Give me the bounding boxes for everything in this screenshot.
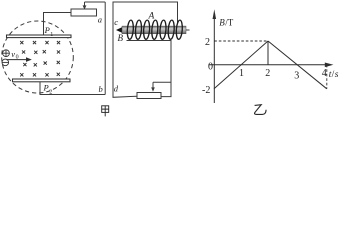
svg-text:-2: -2	[202, 85, 210, 96]
svg-text:P: P	[44, 25, 50, 35]
rheostat R2 slider arrow	[153, 82, 171, 88]
positive particle (circled plus)	[2, 50, 10, 66]
svg-text:P: P	[43, 83, 49, 93]
dashed drop at t=4	[326, 65, 328, 89]
svg-text:b: b	[99, 84, 103, 94]
x row 4	[20, 73, 23, 76]
svg-text:B: B	[118, 33, 124, 43]
solenoid axis line	[119, 29, 190, 31]
svg-text:a: a	[98, 15, 102, 25]
rheostat R1 box	[71, 9, 97, 16]
svg-text:d: d	[114, 84, 119, 94]
svg-text:3: 3	[294, 71, 299, 82]
drop line at t=2	[267, 41, 269, 65]
wire from plate P1 up to rheostat	[44, 13, 72, 36]
y axis B/T	[213, 15, 215, 103]
solenoid A coil windings	[127, 20, 183, 40]
x axis arrowhead	[325, 63, 334, 68]
figure label yi (drawn glyph)	[255, 105, 267, 115]
x row 1	[20, 41, 23, 44]
svg-text:0: 0	[208, 61, 213, 72]
rheostat R2 box	[137, 93, 161, 99]
field crosses (B into page)	[20, 41, 60, 76]
wire: outer loop top/left/bottom	[113, 2, 178, 97]
svg-text:1: 1	[239, 68, 244, 79]
svg-text:A: A	[148, 12, 155, 22]
wire from slider to right rail	[85, 1, 106, 3]
svg-text:4: 4	[322, 68, 327, 79]
svg-text:/T: /T	[225, 18, 234, 28]
figure label jia (drawn glyph)	[102, 106, 109, 117]
rheostat R1 slider arrow	[84, 2, 86, 6]
svg-text:s: s	[335, 70, 339, 80]
svg-text:2: 2	[265, 68, 270, 79]
x row 3	[23, 63, 26, 66]
svg-text:c: c	[114, 17, 118, 27]
bottom wire to plate P2	[40, 82, 105, 95]
svg-text:v: v	[11, 49, 15, 59]
svg-text:2: 2	[205, 37, 210, 48]
negative particle (circled minus)	[2, 59, 9, 66]
velocity v0 arrow	[7, 59, 28, 61]
svg-text:1: 1	[50, 32, 53, 38]
B direction arrowhead (left)	[116, 27, 123, 33]
capacitor plate P2 (bottom)	[13, 79, 71, 82]
B(t) curve: rise then fall	[214, 41, 327, 89]
y axis arrowhead	[213, 9, 217, 19]
field region boundary (dashed circle)	[2, 21, 74, 93]
wire: coil left end down to slider rail	[127, 41, 172, 97]
right rail wire a-b	[104, 2, 106, 95]
x row 2	[22, 50, 25, 53]
svg-text:2: 2	[49, 89, 52, 95]
capacitor plate P1 (top)	[7, 35, 72, 38]
x axis t/s	[209, 64, 327, 66]
svg-text:0: 0	[16, 55, 19, 61]
dashed level B=2	[214, 40, 268, 42]
